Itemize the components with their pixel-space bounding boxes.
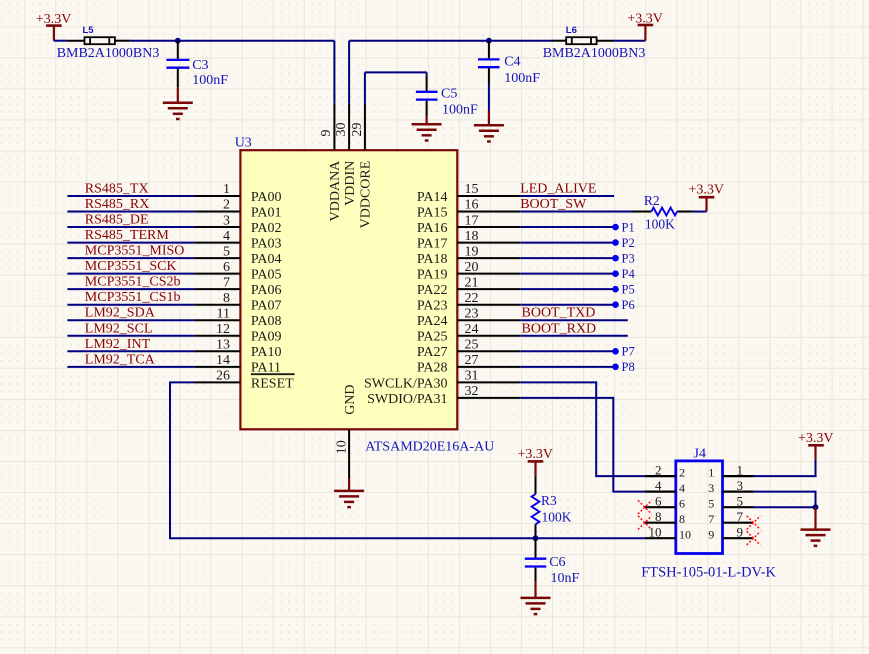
- inductor L5: [67, 25, 131, 44]
- pin 32 (SWDIO/PA31): [367, 384, 520, 407]
- svg-text:VDDANA: VDDANA: [328, 160, 343, 222]
- ground (C6): [521, 581, 551, 614]
- svg-text:+3.3V: +3.3V: [688, 183, 724, 198]
- ground (J4): [801, 507, 831, 546]
- svg-text:MCP3551_CS1b: MCP3551_CS1b: [85, 290, 181, 305]
- pin 8 (J4 left): [645, 509, 685, 526]
- svg-text:PA18: PA18: [417, 252, 448, 267]
- pin 24 (PA25): [417, 322, 520, 345]
- svg-text:4: 4: [679, 481, 685, 495]
- pin 31 (SWCLK/PA30): [364, 369, 520, 392]
- svg-text:PA27: PA27: [417, 345, 448, 360]
- svg-text:PA15: PA15: [417, 205, 448, 220]
- svg-text:5: 5: [737, 494, 744, 509]
- pin 5 (PA04): [194, 244, 281, 267]
- svg-text:PA08: PA08: [251, 314, 282, 329]
- pin 25 (PA27): [417, 338, 520, 361]
- svg-text:BOOT_TXD: BOOT_TXD: [522, 306, 596, 321]
- net label LM92_TCA: [85, 352, 156, 367]
- wire: [614, 40, 645, 42]
- wire: [520, 226, 614, 228]
- net label BOOT_SW: [520, 197, 587, 212]
- pin 18 (PA17): [417, 229, 520, 252]
- wire (riser to pin 30): [348, 41, 350, 104]
- svg-text:VDDIN: VDDIN: [343, 161, 358, 206]
- svg-text:1: 1: [223, 182, 230, 197]
- svg-text:RS485_TX: RS485_TX: [85, 182, 149, 197]
- svg-text:11: 11: [217, 306, 230, 321]
- svg-text:P6: P6: [622, 298, 635, 312]
- pin 7 (J4 right): [708, 509, 753, 526]
- pin 6 (J4 left): [645, 494, 685, 511]
- wire: [67, 304, 194, 306]
- pin 22 (PA23): [417, 291, 520, 314]
- svg-text:+3.3V: +3.3V: [36, 12, 72, 27]
- svg-text:P7: P7: [622, 345, 635, 359]
- label ATSAMD20E16A-AU: [365, 439, 494, 454]
- svg-text:R2: R2: [644, 193, 660, 208]
- svg-text:LM92_SCL: LM92_SCL: [85, 321, 153, 336]
- svg-text:16: 16: [465, 198, 479, 213]
- pin 10 (J4 left): [645, 525, 691, 542]
- svg-text:100nF: 100nF: [192, 73, 228, 88]
- wire (pin29 riser): [365, 72, 427, 103]
- svg-text:LM92_SDA: LM92_SDA: [85, 306, 156, 321]
- pin 3 (J4 right): [708, 478, 753, 495]
- svg-text:BMB2A1000BN3: BMB2A1000BN3: [57, 46, 160, 61]
- pin 4 (J4 left): [645, 478, 685, 495]
- wire (J4 pin 1 to +3.3V): [754, 460, 816, 477]
- svg-text:6: 6: [655, 494, 662, 509]
- svg-text:25: 25: [465, 338, 479, 353]
- wire: [67, 366, 194, 368]
- svg-text:PA09: PA09: [251, 330, 282, 345]
- svg-text:2: 2: [655, 463, 662, 478]
- inductor L6: [552, 25, 615, 44]
- svg-text:PA06: PA06: [251, 283, 282, 298]
- pin 7 (PA06): [194, 275, 281, 298]
- svg-text:U3: U3: [235, 135, 252, 150]
- svg-text:PA04: PA04: [251, 252, 282, 267]
- wire: [67, 226, 194, 228]
- svg-text:10nF: 10nF: [551, 571, 580, 586]
- wire (J4 pin 3): [754, 492, 816, 508]
- svg-text:L6: L6: [566, 25, 577, 36]
- wire: [67, 273, 194, 275]
- wire (left +3.3V rail): [130, 40, 334, 42]
- net label MCP3551_SCK: [85, 259, 177, 274]
- ground (C4): [474, 111, 504, 142]
- wire: [520, 304, 614, 306]
- ground (C3): [163, 87, 193, 119]
- pin 15 (PA14): [417, 182, 520, 205]
- svg-text:10: 10: [334, 440, 349, 454]
- svg-text:SWDIO/PA31: SWDIO/PA31: [367, 392, 447, 407]
- wire: [67, 257, 194, 259]
- svg-text:6: 6: [223, 260, 230, 275]
- wire: [67, 350, 194, 352]
- svg-text:1: 1: [708, 466, 714, 480]
- pin 26 (RESET): [194, 369, 294, 392]
- svg-text:FTSH-105-01-L-DV-K: FTSH-105-01-L-DV-K: [641, 564, 776, 580]
- svg-text:PA17: PA17: [417, 236, 448, 251]
- svg-text:RS485_DE: RS485_DE: [85, 213, 149, 228]
- svg-text:2: 2: [679, 466, 685, 480]
- junction: [813, 504, 819, 510]
- svg-text:BOOT_SW: BOOT_SW: [520, 197, 587, 212]
- ground (C5): [412, 116, 442, 141]
- svg-text:GND: GND: [343, 384, 358, 414]
- svg-text:5: 5: [708, 497, 714, 511]
- svg-text:PA01: PA01: [251, 205, 282, 220]
- svg-text:P2: P2: [622, 236, 635, 250]
- svg-text:+3.3V: +3.3V: [517, 447, 553, 462]
- svg-text:32: 32: [465, 384, 479, 399]
- net label MCP3551_MISO: [85, 244, 185, 259]
- svg-text:PA14: PA14: [417, 190, 448, 205]
- svg-text:P1: P1: [622, 220, 635, 234]
- svg-text:P3: P3: [622, 251, 635, 265]
- pin 11 (PA08): [194, 306, 281, 329]
- svg-text:PA05: PA05: [251, 268, 282, 283]
- svg-text:29: 29: [350, 123, 365, 137]
- wire: [67, 288, 194, 290]
- net label RS485_DE: [85, 213, 149, 228]
- power +3.3V (top right): [627, 12, 663, 41]
- wire: [67, 242, 194, 244]
- node P5: [612, 282, 635, 296]
- svg-text:10: 10: [679, 528, 691, 542]
- svg-text:P4: P4: [622, 267, 636, 281]
- svg-text:PA03: PA03: [251, 236, 282, 251]
- pin 9 (VDDANA): [319, 104, 343, 222]
- no-connect X (J4 pin 8): [638, 516, 652, 530]
- svg-text:20: 20: [465, 260, 479, 275]
- svg-text:PA16: PA16: [417, 221, 448, 236]
- wire (RESET net to J4): [170, 382, 645, 538]
- wire (BOOT_RXD): [520, 335, 628, 337]
- net label MCP3551_CS2b: [85, 275, 181, 290]
- svg-text:MCP3551_MISO: MCP3551_MISO: [85, 244, 185, 259]
- pin 30 (VDDIN): [334, 104, 358, 206]
- wire: [694, 211, 707, 213]
- svg-text:PA00: PA00: [251, 190, 282, 205]
- svg-text:5: 5: [223, 244, 230, 259]
- svg-text:14: 14: [216, 353, 230, 368]
- svg-text:7: 7: [708, 512, 714, 526]
- svg-text:30: 30: [334, 123, 349, 137]
- svg-text:21: 21: [465, 275, 479, 290]
- no-connect X (J4 pin 9): [747, 531, 761, 545]
- resistor R3: [532, 476, 572, 538]
- net label MCP3551_CS1b: [85, 290, 181, 305]
- svg-text:12: 12: [216, 322, 230, 337]
- wire: [488, 84, 490, 112]
- svg-text:SWCLK/PA30: SWCLK/PA30: [364, 376, 448, 391]
- net label RS485_TX: [85, 182, 149, 197]
- svg-text:8: 8: [223, 291, 230, 306]
- svg-text:PA07: PA07: [251, 299, 282, 314]
- svg-text:7: 7: [737, 509, 744, 524]
- svg-text:L5: L5: [83, 25, 95, 36]
- wire: [67, 319, 194, 321]
- wire: [67, 335, 194, 337]
- net label LM92_SCL: [85, 321, 153, 336]
- svg-text:31: 31: [465, 369, 479, 384]
- svg-text:9: 9: [319, 130, 334, 137]
- svg-text:MCP3551_CS2b: MCP3551_CS2b: [85, 275, 181, 290]
- node P1: [612, 220, 635, 234]
- label FTSH-105-01-L-DV-K: [641, 564, 776, 580]
- pin 4 (PA03): [194, 229, 281, 252]
- pin 27 (PA28): [417, 353, 520, 376]
- svg-text:RESET: RESET: [251, 376, 294, 391]
- svg-text:26: 26: [216, 369, 230, 384]
- svg-text:10: 10: [649, 525, 662, 540]
- wire (right +3.3V rail): [349, 40, 551, 42]
- svg-text:+3.3V: +3.3V: [627, 12, 663, 27]
- net label BOOT_RXD: [522, 321, 597, 336]
- svg-text:9: 9: [737, 525, 744, 540]
- svg-text:100K: 100K: [542, 509, 572, 524]
- svg-text:PA24: PA24: [417, 314, 448, 329]
- svg-text:PA25: PA25: [417, 330, 448, 345]
- svg-text:C5: C5: [441, 86, 457, 101]
- no-connect X (J4 pin 7): [747, 516, 761, 530]
- svg-text:MCP3551_SCK: MCP3551_SCK: [85, 259, 177, 274]
- svg-text:15: 15: [465, 182, 479, 197]
- svg-text:8: 8: [655, 509, 662, 524]
- capacitor C6: [525, 538, 580, 586]
- svg-text:PA23: PA23: [417, 299, 448, 314]
- net label RS485_TERM: [85, 228, 170, 243]
- pin 10 (GND): [334, 384, 358, 478]
- svg-text:3: 3: [223, 213, 230, 228]
- power +3.3V (R2): [688, 183, 724, 212]
- net label RS485_RX: [85, 197, 150, 212]
- pin 17 (PA16): [417, 213, 520, 236]
- IC U3 (ATSAMD20E16A-AU): [235, 135, 458, 429]
- label BMB2A1000BN3 (L5 value): [57, 46, 160, 61]
- svg-text:LM92_INT: LM92_INT: [85, 337, 151, 352]
- junction: [486, 38, 492, 44]
- wire: [54, 40, 67, 42]
- node P6: [612, 298, 635, 312]
- svg-text:8: 8: [679, 512, 685, 526]
- pin 20 (PA19): [417, 260, 520, 283]
- wire: [520, 350, 614, 352]
- svg-text:100K: 100K: [645, 217, 675, 232]
- svg-text:LM92_TCA: LM92_TCA: [85, 352, 156, 367]
- net label LED_ALIVE: [520, 182, 596, 197]
- svg-text:RS485_TERM: RS485_TERM: [85, 228, 170, 243]
- pin 12 (PA09): [194, 322, 281, 345]
- net label LM92_INT: [85, 337, 151, 352]
- wire: [67, 195, 194, 197]
- node P3: [612, 251, 635, 265]
- capacitor C3: [166, 41, 228, 88]
- wire: [520, 273, 614, 275]
- svg-text:+3.3V: +3.3V: [798, 431, 834, 446]
- wire (SWDIO to J4 pin 4): [520, 398, 645, 492]
- pin 16 (PA15): [417, 198, 520, 221]
- pin 21 (PA22): [417, 275, 520, 298]
- svg-text:9: 9: [708, 528, 714, 542]
- svg-text:P8: P8: [622, 360, 635, 374]
- ground (IC pin 10): [334, 478, 364, 507]
- wire: [520, 211, 632, 213]
- pin 14 (PA11): [194, 353, 281, 376]
- svg-text:19: 19: [465, 244, 479, 259]
- node P2: [612, 236, 635, 250]
- svg-text:RS485_RX: RS485_RX: [85, 197, 150, 212]
- power +3.3V (top left): [36, 12, 72, 41]
- svg-text:C6: C6: [549, 555, 565, 570]
- junction: [175, 38, 181, 44]
- pin 9 (J4 right): [708, 525, 753, 542]
- node P8: [612, 360, 635, 374]
- net label BOOT_TXD: [522, 306, 596, 321]
- wire (LED_ALIVE): [520, 195, 614, 197]
- svg-text:18: 18: [465, 229, 479, 244]
- pin 2 (PA01): [194, 198, 281, 221]
- svg-text:4: 4: [223, 229, 230, 244]
- node P7: [612, 345, 635, 359]
- wire: [520, 366, 614, 368]
- svg-text:ATSAMD20E16A-AU: ATSAMD20E16A-AU: [365, 439, 494, 454]
- pin 13 (PA10): [194, 338, 281, 361]
- wire: [520, 257, 614, 259]
- svg-text:BOOT_RXD: BOOT_RXD: [522, 321, 597, 336]
- svg-text:27: 27: [465, 353, 479, 368]
- svg-text:6: 6: [679, 497, 685, 511]
- svg-text:PA22: PA22: [417, 283, 448, 298]
- svg-text:PA19: PA19: [417, 268, 448, 283]
- svg-text:C3: C3: [192, 58, 208, 73]
- junction: [533, 535, 539, 541]
- wire: [520, 242, 614, 244]
- svg-text:PA10: PA10: [251, 345, 282, 360]
- svg-text:13: 13: [216, 338, 230, 353]
- power +3.3V (R3): [517, 447, 553, 476]
- svg-text:LED_ALIVE: LED_ALIVE: [520, 182, 596, 197]
- net label LM92_SDA: [85, 306, 156, 321]
- svg-text:17: 17: [465, 213, 479, 228]
- node P4: [612, 267, 635, 281]
- svg-text:22: 22: [465, 291, 479, 306]
- pin 29 (VDDCORE): [350, 104, 374, 229]
- label BMB2A1000BN3 (L6 value): [543, 46, 646, 61]
- pin 1 (J4 right): [708, 463, 753, 480]
- svg-text:PA28: PA28: [417, 361, 448, 376]
- svg-text:3: 3: [737, 478, 744, 493]
- svg-text:P5: P5: [622, 282, 635, 296]
- pin 3 (PA02): [194, 213, 281, 236]
- wire (J4 pin 5): [754, 506, 816, 508]
- svg-text:C4: C4: [504, 55, 520, 70]
- wire: [67, 211, 194, 213]
- pin 19 (PA18): [417, 244, 520, 267]
- pin 5 (J4 right): [708, 494, 753, 511]
- pin 23 (PA24): [417, 306, 520, 329]
- svg-text:1: 1: [737, 463, 744, 478]
- wire (SWCLK to J4 pin 2): [520, 382, 645, 476]
- power +3.3V (J4): [798, 431, 834, 460]
- svg-text:R3: R3: [541, 493, 557, 508]
- svg-text:2: 2: [223, 198, 230, 213]
- svg-text:BMB2A1000BN3: BMB2A1000BN3: [543, 46, 646, 61]
- resistor R2: [632, 193, 694, 232]
- wire (riser to pin 9): [333, 41, 335, 104]
- svg-text:100nF: 100nF: [442, 103, 478, 118]
- pin 2 (J4 left): [645, 463, 685, 480]
- svg-text:7: 7: [223, 275, 230, 290]
- no-connect X (J4 pin 6): [638, 500, 652, 514]
- svg-text:24: 24: [465, 322, 479, 337]
- capacitor C5: [416, 75, 478, 117]
- svg-text:PA02: PA02: [251, 221, 282, 236]
- svg-text:100nF: 100nF: [504, 71, 540, 86]
- svg-text:4: 4: [655, 478, 662, 493]
- capacitor C4: [478, 41, 540, 86]
- svg-text:23: 23: [465, 306, 479, 321]
- svg-text:VDDCORE: VDDCORE: [359, 161, 374, 229]
- pin 1 (PA00): [194, 182, 281, 205]
- pin 8 (PA07): [194, 291, 281, 314]
- wire: [520, 288, 614, 290]
- wire (BOOT_TXD): [520, 319, 628, 321]
- connector J4 body: [676, 447, 723, 554]
- svg-text:3: 3: [708, 481, 714, 495]
- pin 6 (PA05): [194, 260, 281, 283]
- svg-text:J4: J4: [694, 447, 706, 462]
